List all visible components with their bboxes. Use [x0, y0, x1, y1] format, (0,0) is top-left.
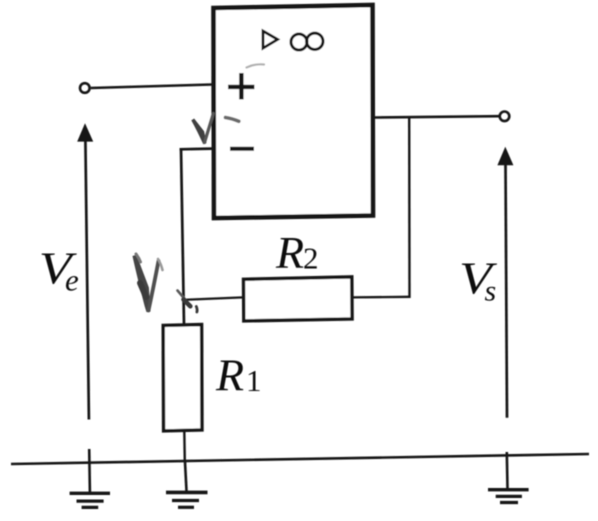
wire: R1 bottom to ground rail — [183, 431, 186, 462]
resistor R2 — [244, 277, 353, 321]
input terminal node (open circle) — [80, 83, 90, 93]
ground symbol left bars — [70, 493, 110, 507]
svg-text:2: 2 — [303, 241, 319, 276]
op-amp U1 infinity symbol — [291, 33, 323, 50]
wire: inverting input horizontal stub — [180, 147, 212, 150]
svg-text:1: 1 — [246, 363, 262, 398]
svg-text:e: e — [65, 263, 79, 298]
handwritten tick at feedback node — [178, 291, 198, 313]
op-amp U1 minus sign (inverting input) — [230, 147, 254, 151]
handwritten V check near R1 — [135, 254, 163, 312]
ground symbol right bars — [488, 490, 529, 503]
op-amp U1 gain triangle symbol — [263, 31, 278, 48]
handwritten check mark near inverting input — [193, 114, 214, 144]
wire: R2 right to feedback riser — [352, 296, 411, 299]
faint pencil arc near plus sign — [247, 64, 265, 67]
ground symbol left (stem) — [88, 449, 91, 493]
ground rail — [11, 454, 589, 464]
handwritten pencil dash right of check — [226, 118, 239, 122]
output terminal node (open circle) — [500, 112, 510, 122]
arrow Ve — [77, 123, 93, 419]
ground symbol middle (stem) — [185, 462, 187, 491]
arrow Vs — [497, 147, 513, 418]
svg-text:R: R — [215, 350, 244, 401]
op-amp U1 body — [214, 5, 374, 218]
wire: feedback riser from output — [408, 116, 411, 298]
resistor R1 — [163, 325, 202, 431]
wire: feedback node to R2 left — [183, 297, 244, 300]
wire: inverting node vertical drop to R1 — [181, 148, 184, 325]
svg-text:R: R — [275, 227, 304, 278]
ground symbol right (stem) — [505, 452, 508, 488]
wire: op-amp output to terminal — [374, 116, 499, 117]
ground symbol middle bars — [166, 492, 208, 507]
op-amp U1 plus sign (non-inverting input) — [228, 73, 254, 99]
svg-text:s: s — [485, 275, 497, 308]
wire: input terminal to op-amp + input — [91, 85, 212, 89]
